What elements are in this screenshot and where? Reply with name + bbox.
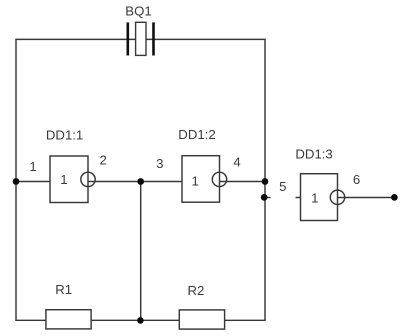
node terminal dot output 6 xyxy=(391,194,398,201)
svg-text:6: 6 xyxy=(353,172,360,187)
svg-text:1: 1 xyxy=(29,159,36,174)
wire pin 5 stub from junction xyxy=(265,197,271,199)
op-amp U1 inverter DD1:1 xyxy=(50,156,95,203)
wire left vertical xyxy=(15,39,17,321)
svg-text:BQ1: BQ1 xyxy=(125,3,151,18)
crystal BQ1 xyxy=(127,22,155,55)
wire pin 5 stub at DD1:3 input xyxy=(296,197,301,199)
svg-text:R2: R2 xyxy=(188,283,205,298)
svg-text:R1: R1 xyxy=(55,282,72,297)
wire DD1:2 output to right vertical xyxy=(227,181,266,183)
svg-text:DD1:1: DD1:1 xyxy=(46,128,83,143)
wire DD1:3 output xyxy=(345,197,395,199)
svg-text:DD1:3: DD1:3 xyxy=(295,147,332,162)
op-amp U2 inverter DD1:2 xyxy=(182,156,227,203)
wire input to DD1:1 xyxy=(16,181,50,183)
svg-text:2: 2 xyxy=(100,153,107,168)
wire middle vertical xyxy=(140,182,142,321)
wire bottom horizontal xyxy=(15,319,265,321)
wire right vertical xyxy=(264,39,266,321)
svg-text:DD1:2: DD1:2 xyxy=(178,127,215,142)
wire DD1:1 output to DD1:2 input xyxy=(95,181,182,183)
resistor R1 xyxy=(46,310,91,329)
svg-text:1: 1 xyxy=(60,172,67,187)
resistor R2 xyxy=(179,310,224,329)
node junction dot right pin5 xyxy=(261,194,268,201)
svg-text:1: 1 xyxy=(311,191,318,206)
svg-text:4: 4 xyxy=(233,154,240,169)
node junction dot middle xyxy=(137,178,144,185)
svg-text:5: 5 xyxy=(279,179,286,194)
svg-text:3: 3 xyxy=(156,156,163,171)
node junction dot left xyxy=(13,178,20,185)
svg-text:1: 1 xyxy=(192,173,199,188)
wire top horizontal xyxy=(15,38,265,40)
op-amp U3 inverter DD1:3 xyxy=(301,174,345,221)
node junction dot bottom middle xyxy=(137,317,144,324)
node junction dot right upper xyxy=(262,178,269,185)
